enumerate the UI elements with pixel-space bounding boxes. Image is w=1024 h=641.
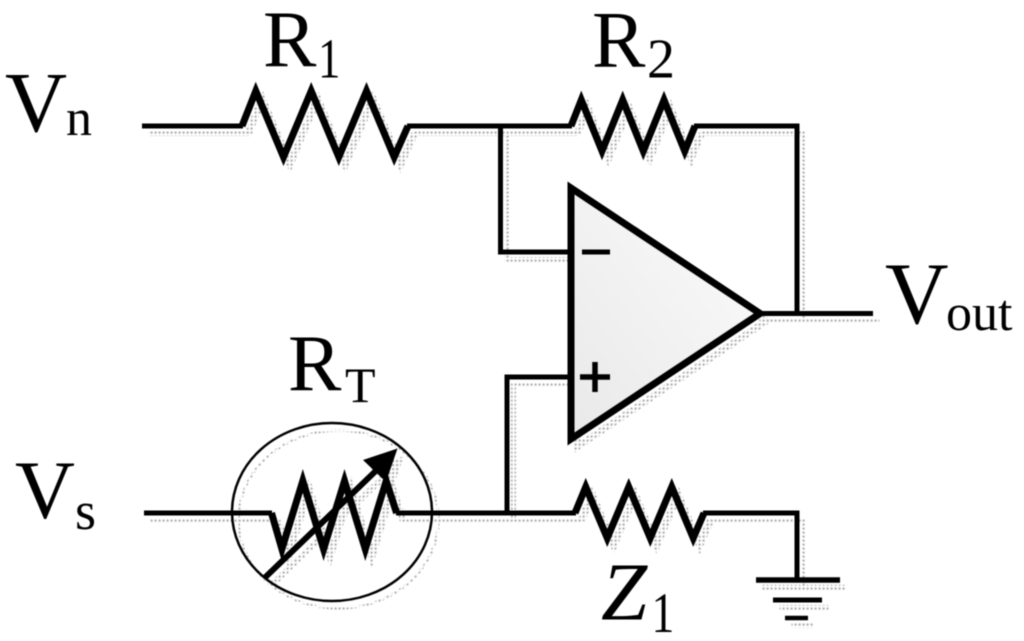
svg-text:1: 1 [318,28,340,90]
svg-text:R: R [288,320,342,408]
svg-text:V: V [5,54,67,150]
svg-text:V: V [15,444,75,536]
svg-text:R: R [263,0,317,84]
svg-text:T: T [345,357,376,413]
svg-text:R: R [592,0,646,84]
svg-text:2: 2 [647,29,675,91]
svg-text:1: 1 [652,582,675,641]
svg-text:V: V [885,246,949,343]
svg-text:out: out [946,285,1013,342]
svg-text:n: n [66,90,92,147]
svg-text:s: s [75,481,96,541]
svg-text:Z: Z [601,546,648,638]
